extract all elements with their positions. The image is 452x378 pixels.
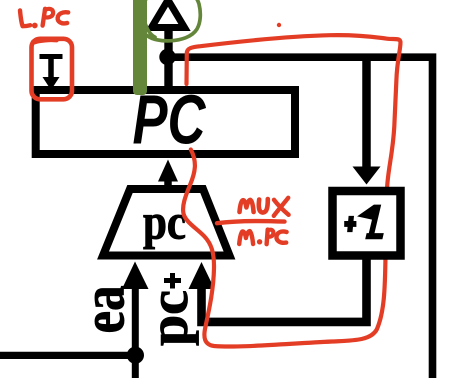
svg-text:pc: pc — [138, 290, 199, 346]
svg-text:pc: pc — [143, 194, 186, 250]
svg-text:ea: ea — [71, 286, 137, 334]
